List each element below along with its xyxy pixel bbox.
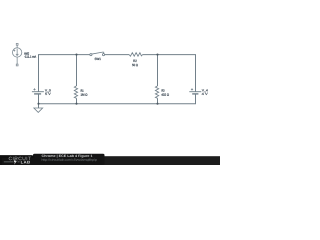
label R1	[81, 90, 84, 92]
value 1M Ohm	[81, 93, 88, 95]
node R1 bottom	[75, 103, 77, 105]
wire R1 bottom lead	[76, 98, 78, 104]
label SW1	[95, 58, 101, 60]
value 50 Ohm	[132, 64, 138, 66]
label AM2	[24, 52, 29, 54]
value -111.1 mA	[24, 56, 36, 58]
resistor R2	[129, 53, 142, 57]
node ground junction	[37, 103, 39, 105]
ground	[38, 104, 40, 108]
wire battery V_4 bottom lead	[195, 94, 197, 104]
footer url text	[42, 159, 97, 162]
label R2	[133, 60, 136, 62]
label V_0	[45, 89, 51, 92]
node R3 bottom	[156, 103, 158, 105]
battery V_0	[32, 88, 44, 94]
switch SW1	[90, 52, 105, 56]
footer title text	[42, 155, 93, 158]
label V_4	[202, 89, 208, 92]
battery V_4	[189, 88, 201, 94]
ammeter AM2	[13, 43, 22, 66]
resistor R1	[74, 86, 77, 98]
wire bottom rail	[38, 103, 196, 105]
wire battery V_4 top lead	[195, 55, 197, 92]
label R3	[162, 89, 165, 91]
wire R3 top lead	[157, 55, 159, 86]
wire battery V_0 top lead	[38, 55, 40, 92]
wire switch to R2	[105, 54, 130, 56]
value 402 Ohm	[161, 93, 169, 95]
node R3 top	[156, 54, 158, 56]
wire R1 top lead	[76, 55, 78, 86]
node R1 top	[75, 54, 77, 56]
wire R3 bottom lead	[157, 98, 159, 104]
wire R2 to top-right corner	[143, 54, 196, 56]
footer watermark bar	[0, 156, 220, 165]
resistor R3	[155, 86, 158, 98]
value 5 V	[45, 93, 50, 95]
wire battery V_0 bottom lead	[38, 94, 40, 104]
CircuitLab logo	[9, 157, 31, 161]
wire top rail left	[38, 54, 90, 56]
value 4 V	[202, 93, 208, 95]
